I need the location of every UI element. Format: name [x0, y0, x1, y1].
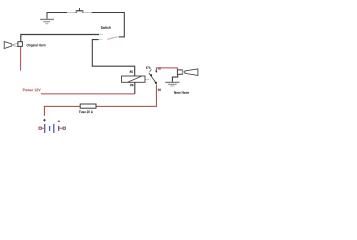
wire (horn to switch top terminal): [21, 35, 99, 42]
label Fuse 20 A: [79, 111, 93, 114]
label 87: [158, 67, 161, 69]
wire (button to switch, with corner down): [92, 13, 125, 38]
wire (pin 86 down to power line): [134, 82, 136, 94]
plates: [44, 124, 46, 133]
wire (pink segment after button): [84, 12, 92, 14]
label 86: [130, 84, 133, 86]
wire (power 12V to relay pin 86): [41, 93, 135, 95]
wire (switch to vertical): [119, 36, 125, 38]
contact 87 arrowhead: [155, 71, 157, 74]
wire (ground to horn button): [47, 12, 68, 14]
battery BT1: [39, 119, 65, 133]
plus sign: [43, 119, 46, 122]
label 30: [158, 89, 161, 91]
wire (red lead below original horn): [20, 47, 22, 71]
label New Horn: [174, 91, 189, 94]
label 87A: [146, 67, 151, 69]
horn U2 bell: [182, 69, 198, 76]
wire (switch lower terminal down to relay coil): [92, 40, 134, 77]
right pad: [59, 127, 63, 129]
pushbutton (horn button, normally-open): [76, 8, 84, 13]
relay coil K1: [122, 76, 146, 82]
fuse F1: [80, 104, 96, 108]
relay actuator dashed link: [145, 78, 150, 80]
label Power 12V: [23, 89, 41, 92]
label Switch: [101, 26, 111, 29]
wire (light segment into button): [67, 12, 76, 14]
left pad: [39, 127, 41, 129]
contact 87A tick: [150, 70, 152, 72]
horn U1 body box: [18, 42, 23, 47]
minus sign: [58, 120, 60, 122]
wire (fuse line: battery corner to relay 30, red): [44, 106, 80, 115]
ground (new horn): [165, 82, 179, 86]
wire (new horn to ground): [172, 74, 177, 82]
wire (87 up and right to new horn, red): [156, 68, 177, 70]
label Original Horn: [27, 44, 46, 47]
relay blade (30 common): [149, 73, 156, 83]
label 85: [130, 71, 133, 73]
ground (top-left chassis ground): [40, 13, 54, 24]
horn U2 body box (new horn): [177, 70, 182, 74]
switch blade: [107, 37, 116, 39]
horn U1 bell (original horn): [4, 42, 18, 49]
